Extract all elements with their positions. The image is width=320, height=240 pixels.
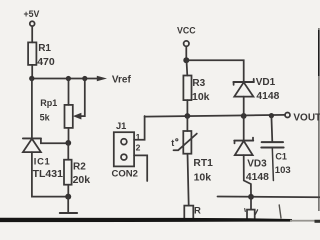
junction J (VD3 bottom) — [248, 194, 254, 200]
svg-text:4148: 4148 — [246, 172, 269, 183]
resistor R (bottom, cut off) — [184, 205, 201, 220]
junction H (VD1/VD3) — [241, 113, 247, 119]
scan border right edge — [318, 28, 320, 211]
ground — [60, 197, 77, 213]
svg-text:t: t — [171, 138, 174, 148]
wire node A down to IC1 cathode — [31, 79, 33, 139]
resistor R2 — [64, 143, 90, 186]
varistor (bottom, cut off) — [245, 197, 258, 221]
svg-text:CON2: CON2 — [112, 169, 138, 180]
svg-text:Vref: Vref — [112, 75, 132, 86]
diode VD3 4148 — [234, 116, 269, 183]
Rp1 wiper arrow — [73, 113, 82, 120]
svg-text:1: 1 — [136, 132, 141, 142]
svg-text:IC1: IC1 — [34, 156, 51, 166]
svg-text:R: R — [194, 205, 201, 216]
wire VCC to node — [185, 46, 187, 60]
wire R3 to VOUT rail — [186, 100, 188, 116]
junction F (VCC node) — [183, 57, 189, 63]
svg-text:VCC: VCC — [177, 25, 196, 35]
svg-text:+5V: +5V — [24, 9, 40, 19]
diode VD1 4148 — [233, 77, 279, 102]
potentiometer Rp1 — [40, 79, 73, 128]
scan border bottom band — [0, 218, 320, 223]
wire R2 to ground junction — [67, 185, 69, 197]
junction D (Rp1/R2/IC1 ref) — [65, 140, 71, 146]
svg-text:10k: 10k — [194, 171, 212, 183]
wire R1 to Vref rail — [31, 65, 33, 79]
svg-text:2: 2 — [136, 143, 141, 153]
wire +5V to R1 — [31, 26, 33, 42]
junction B (Rp1 top) — [66, 76, 71, 81]
VOUT terminal — [285, 113, 320, 124]
resistor R3 — [183, 60, 209, 103]
resistor R1 — [28, 42, 55, 67]
junction C (wiper feed) — [82, 76, 87, 81]
VCC terminal — [177, 25, 196, 46]
+5V terminal — [24, 9, 40, 26]
wire C1 bottom — [272, 148, 273, 181]
wire IC1 anode to ground rail — [32, 152, 66, 197]
wire VD1 anode to rail — [243, 97, 245, 116]
connector J1 — [112, 121, 141, 179]
svg-text:R3: R3 — [192, 78, 205, 89]
svg-text:10k: 10k — [192, 91, 210, 103]
wire VOUT rail — [145, 115, 285, 117]
junction A (R1/IC1) — [29, 76, 34, 81]
wire VCC node to VD1 — [186, 60, 243, 82]
Vref arrow — [97, 76, 107, 82]
capacitor C1 103 — [261, 116, 290, 176]
svg-text:470: 470 — [37, 56, 55, 68]
thermistor RT1 — [171, 116, 213, 183]
wire VD3 anode to bottom rail — [244, 155, 251, 197]
junction E (ground node) — [65, 194, 71, 200]
svg-text:103: 103 — [275, 165, 291, 176]
svg-text:VOUT: VOUT — [293, 113, 320, 124]
wire Rp1 bottom to junction — [68, 128, 70, 143]
svg-text:VD3: VD3 — [247, 159, 267, 170]
wire bottom rail — [218, 196, 320, 199]
junction G (R3/RT1) — [185, 113, 191, 119]
svg-text:TL431: TL431 — [33, 168, 64, 180]
svg-text:20k: 20k — [73, 174, 91, 186]
wire RT1 to bottom resistor — [188, 154, 189, 206]
wire J1 pin1 to VOUT rail — [134, 116, 145, 140]
svg-text:Rp1: Rp1 — [40, 98, 57, 108]
svg-text:R1: R1 — [38, 43, 51, 54]
op-amp IC1 TL431 — [23, 138, 66, 180]
wire J1 pin2 stub — [134, 155, 147, 181]
junction I (C1 top) — [269, 113, 274, 118]
wire Vref rail — [32, 78, 97, 80]
svg-text:VD1: VD1 — [256, 77, 276, 88]
svg-text:R2: R2 — [73, 162, 86, 173]
svg-text:J1: J1 — [116, 121, 126, 131]
wire wiper feed — [80, 79, 85, 117]
svg-text:RT1: RT1 — [193, 158, 213, 169]
svg-text:5k: 5k — [40, 112, 51, 122]
svg-text:4148: 4148 — [256, 91, 279, 102]
svg-text:C1: C1 — [275, 152, 287, 162]
